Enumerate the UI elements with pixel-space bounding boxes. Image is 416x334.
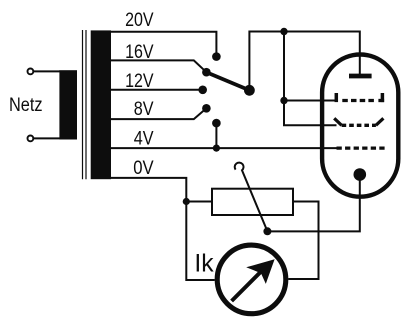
junction grid3 lead xyxy=(280,97,287,104)
wire grid3 lead xyxy=(284,100,337,102)
wire resistor left lead xyxy=(186,201,212,203)
transformer secondary winding xyxy=(91,30,111,179)
meter needle xyxy=(232,272,261,301)
wire 12V tap xyxy=(111,89,203,91)
tube grid g3 xyxy=(336,93,384,102)
switch contact 8V xyxy=(202,104,211,113)
svg-text:8V: 8V xyxy=(134,98,154,120)
svg-text:0V: 0V xyxy=(133,157,154,179)
terminal bottom xyxy=(28,136,34,142)
transformer core xyxy=(83,30,87,179)
meter needle head xyxy=(246,259,274,284)
svg-text:Ik: Ik xyxy=(194,250,213,278)
tube grid g1 xyxy=(337,146,385,149)
transformer primary winding xyxy=(59,70,77,139)
tube grid g2 xyxy=(334,118,383,125)
wire wiper to anode top xyxy=(249,32,359,91)
switch contact 16V xyxy=(202,68,211,77)
tube cathode xyxy=(354,168,367,181)
wire resistor right lead to meter xyxy=(288,202,318,280)
wire 16V tap xyxy=(111,60,206,72)
switch wiper xyxy=(206,72,249,90)
svg-text:Netz: Netz xyxy=(9,94,43,116)
wire 0V tap xyxy=(111,178,215,280)
tube anode plate xyxy=(349,74,372,79)
svg-text:4V: 4V xyxy=(134,128,154,150)
resistor R1 (rheostat body) xyxy=(212,189,293,215)
junction 0V resistor xyxy=(183,198,190,205)
switch pivot xyxy=(244,85,255,96)
wire 4V contact stem xyxy=(215,123,217,148)
switch contact 20V xyxy=(212,52,221,61)
tube U1 envelope xyxy=(322,55,398,197)
rheostat slider arm xyxy=(235,163,268,232)
svg-text:16V: 16V xyxy=(125,41,154,63)
switch contact 4V xyxy=(212,119,221,128)
wire bottom terminal to primary xyxy=(34,137,61,139)
switch contact 12V xyxy=(198,86,207,95)
svg-text:20V: 20V xyxy=(125,9,154,31)
wire 20V tap xyxy=(111,32,216,57)
svg-text:12V: 12V xyxy=(125,70,154,92)
wire slider to cathode xyxy=(267,175,359,232)
junction 4V line xyxy=(213,145,220,152)
wire junction drop to grids xyxy=(284,32,337,126)
wire 8V tap xyxy=(111,108,206,119)
wire 4V tap to grid1 xyxy=(111,147,337,149)
meter Ik body xyxy=(217,245,286,314)
terminal top xyxy=(28,69,34,75)
rheostat slider tap dot xyxy=(263,227,271,235)
junction top wire xyxy=(280,28,287,35)
wire top terminal to primary xyxy=(34,70,61,72)
